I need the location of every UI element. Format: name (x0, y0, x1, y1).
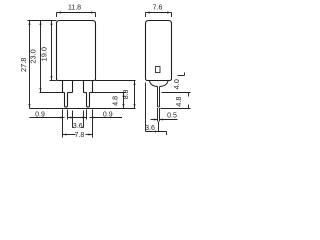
svg-text:0.5: 0.5 (167, 113, 177, 120)
dimension 23.0 line (40, 21, 42, 93)
arrow 27.8 top (29, 21, 31, 26)
arrow 7.8 right (89, 134, 93, 136)
extension thick lead outer left (62, 110, 64, 138)
right view lead bell left (150, 81, 158, 87)
top extension line shared (28, 20, 57, 22)
svg-text:3.6: 3.6 (73, 123, 83, 130)
arrow 11.8 left (57, 12, 62, 14)
svg-text:8.8: 8.8 (123, 89, 130, 99)
extension thin lead inner left (67, 110, 69, 120)
body bottom extension right (96, 80, 136, 82)
svg-text:23.0: 23.0 (29, 49, 38, 63)
right view upper extension (178, 73, 185, 76)
right view kink extension (162, 93, 191, 97)
dimension 4.8 left chain line (123, 93, 125, 109)
svg-text:7.6: 7.6 (153, 4, 163, 11)
kink extension left (40, 92, 63, 94)
arrow 7.6 right (167, 12, 172, 14)
svg-text:27.8: 27.8 (19, 58, 28, 72)
arrow 8.8 bottom (134, 104, 136, 109)
right view body (146, 21, 172, 81)
arrow 0.9 left inner (68, 117, 72, 119)
arrow 4.8 chain bottom (123, 104, 125, 109)
dimension 8.8 line (134, 81, 136, 109)
svg-text:4.8: 4.8 (174, 96, 183, 106)
arrow 23.0 bottom (40, 88, 42, 93)
svg-text:4.0: 4.0 (172, 79, 181, 89)
arrow 7.6 left (146, 12, 151, 14)
dimension 0.9 middle line (68, 117, 87, 119)
extension thick lead inner left (72, 111, 74, 128)
extension thick lead inner right (83, 111, 85, 128)
dimension 7.8 line (63, 134, 93, 136)
arrow 23.0 top (40, 21, 42, 26)
arrow 3.6 right dim (155, 131, 159, 133)
right view body edge extension (145, 83, 147, 132)
arrow 19.0 bottom (51, 76, 53, 81)
svg-text:11.8: 11.8 (68, 4, 81, 11)
right view lead edge extensions (158, 108, 160, 122)
right view lead bell right (160, 81, 169, 87)
svg-text:0.9: 0.9 (35, 111, 45, 118)
left view body (57, 21, 96, 81)
dimension 3.6 left line (73, 127, 84, 129)
left view left thin lead (65, 93, 68, 108)
arrow 11.8 right (91, 12, 96, 14)
right view internal rect (156, 67, 161, 73)
svg-text:0.9: 0.9 (103, 111, 113, 118)
arrow 0.5 right (160, 119, 164, 121)
kink extension right (93, 92, 126, 94)
right view tip extension (161, 105, 191, 109)
lead tip extension line (30, 108, 136, 110)
arrow 27.8 bottom (29, 104, 31, 109)
svg-text:4.8: 4.8 (113, 96, 120, 106)
extension thin lead inner right (86, 110, 88, 120)
right view lead (158, 87, 160, 108)
dimension 11.8 line (57, 13, 96, 18)
left view right thin lead (87, 93, 90, 108)
dimension 0.5 line (151, 119, 178, 121)
extension thick lead outer right (92, 110, 94, 138)
dimension 19.0 line (51, 21, 53, 81)
arrowheads (29, 12, 172, 136)
dimension 27.8 line (29, 21, 31, 109)
arrow 7.8 left (63, 134, 67, 136)
left view left thick lead (63, 81, 73, 93)
svg-text:3.6: 3.6 (145, 125, 155, 132)
arrow 4.8 chain top (123, 93, 125, 98)
left view right thick lead (84, 81, 93, 93)
svg-text:7.8: 7.8 (75, 132, 85, 139)
body bottom extension left (50, 80, 57, 82)
dimension 0.9 right line (90, 117, 123, 119)
arrow 0.9 left (61, 117, 65, 119)
arrow 0.9 right inner (83, 117, 87, 119)
dimension 0.9 left line (30, 117, 65, 119)
dimension 7.6 line (146, 13, 172, 18)
arrow 0.9 right (90, 117, 94, 119)
arrow 19.0 top (51, 21, 53, 26)
dimension 3.6 right line (146, 132, 167, 136)
right view lead center extension (158, 122, 160, 132)
arrow 0.5 left (154, 119, 158, 121)
svg-text:19.0: 19.0 (40, 47, 49, 61)
arrow 8.8 top (134, 81, 136, 86)
